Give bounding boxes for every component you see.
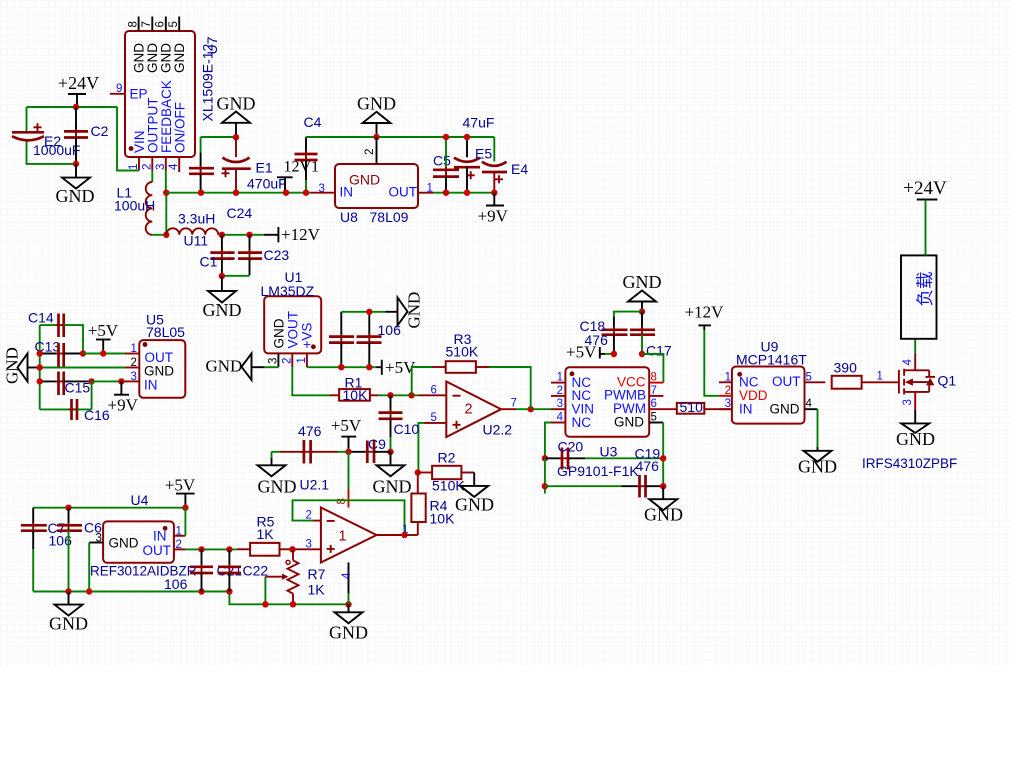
ground GND under C1/C23 <box>203 276 242 320</box>
resistor 510 <box>677 399 732 415</box>
capacitor E5 <box>454 115 494 193</box>
svg-text:2: 2 <box>465 402 473 418</box>
svg-text:+9V: +9V <box>478 207 509 226</box>
svg-text:R2: R2 <box>438 450 456 466</box>
svg-text:+12V: +12V <box>685 303 725 322</box>
svg-text:Q1: Q1 <box>938 373 957 389</box>
pin 4 (U2.1 V-) <box>341 563 353 605</box>
svg-text:3: 3 <box>131 371 137 383</box>
capacitor C20 <box>545 439 663 470</box>
ground GND under C2 <box>56 164 95 206</box>
capacitor C23 <box>222 235 289 276</box>
svg-text:GND: GND <box>56 186 95 206</box>
svg-text:U2.2: U2.2 <box>483 422 513 438</box>
svg-text:8: 8 <box>651 372 657 384</box>
wire pin3 feedback vertical <box>165 193 167 235</box>
svg-text:3: 3 <box>319 183 325 195</box>
wiper arrow <box>265 574 288 605</box>
svg-text:R7: R7 <box>308 566 326 582</box>
svg-text:IN: IN <box>144 378 158 393</box>
capacitor C21 <box>190 549 242 591</box>
svg-text:+VS: +VS <box>300 323 315 349</box>
svg-text:1: 1 <box>725 371 731 383</box>
op-amp U2.1 <box>300 477 377 563</box>
svg-text:C24: C24 <box>227 205 253 221</box>
svg-text:+12V: +12V <box>281 225 321 244</box>
wire GND top link <box>201 136 236 138</box>
svg-text:2: 2 <box>176 539 182 551</box>
svg-text:GND: GND <box>271 318 286 348</box>
svg-text:GND: GND <box>405 292 424 329</box>
ground GND under C9 <box>373 452 412 497</box>
svg-text:E1: E1 <box>256 160 273 176</box>
svg-text:5: 5 <box>651 412 657 424</box>
svg-text:E5: E5 <box>475 146 492 162</box>
svg-text:9: 9 <box>116 83 122 95</box>
wire bottom GND rail <box>33 591 229 593</box>
regulator U7 <box>125 31 195 157</box>
junction dot <box>219 232 225 238</box>
ground GND under U9 <box>798 409 837 476</box>
capacitor C24 <box>189 137 214 193</box>
junction dot <box>100 350 106 356</box>
svg-text:5: 5 <box>168 21 180 27</box>
svg-text:+24V: +24V <box>903 178 947 199</box>
pin 2 (U5 GND) <box>125 357 139 369</box>
svg-text:U4: U4 <box>131 492 149 508</box>
pin 6 (U3 PWM) <box>649 398 677 410</box>
wire caps top row <box>341 311 385 313</box>
inductor U11 3.3uH <box>166 211 218 249</box>
svg-text:OUT: OUT <box>389 185 418 200</box>
pin 1 (U9 NC) <box>719 371 732 383</box>
svg-text:8: 8 <box>128 21 140 27</box>
junction dot <box>37 378 43 384</box>
svg-text:IN: IN <box>153 529 167 544</box>
ground GND bottom-left <box>49 592 88 634</box>
wire out to R4 <box>405 534 418 536</box>
pin 2 (U4 OUT) <box>174 539 186 551</box>
wire pin3 down <box>88 543 90 592</box>
ground GND under Q1 <box>896 410 935 449</box>
wire pin1 up <box>184 508 186 536</box>
wire top +5V row <box>33 507 185 509</box>
svg-text:C1: C1 <box>200 254 218 270</box>
pin 8 <box>128 17 140 32</box>
net flag +5V (U2.1 supply) <box>331 416 362 452</box>
svg-text:C10: C10 <box>394 421 420 437</box>
ground GND left flag <box>3 347 40 384</box>
junction dot <box>443 134 449 140</box>
pin 1 <box>128 157 140 171</box>
svg-text:IRFS4310ZPBF: IRFS4310ZPBF <box>862 456 957 471</box>
wire left column down <box>544 458 546 493</box>
sensor U1 LM35DZ <box>261 269 322 353</box>
pin 1 (U4 IN) <box>174 526 186 538</box>
svg-text:U2.1: U2.1 <box>300 477 330 493</box>
wire right GND column <box>662 423 664 487</box>
svg-text:2: 2 <box>306 510 312 522</box>
svg-text:5: 5 <box>806 371 812 383</box>
svg-text:+5V: +5V <box>88 321 119 340</box>
junction dot <box>198 190 204 196</box>
regulator U8 78L09 <box>335 164 418 225</box>
net flag +24V <box>58 73 99 107</box>
capacitor C6 <box>57 508 102 592</box>
svg-text:GND: GND <box>623 272 662 292</box>
svg-text:3: 3 <box>725 398 731 410</box>
svg-text:3: 3 <box>557 398 563 410</box>
svg-text:3: 3 <box>902 399 914 405</box>
svg-text:1000uF: 1000uF <box>33 142 80 158</box>
capacitor C4 <box>295 114 322 193</box>
svg-text:3: 3 <box>96 533 102 545</box>
svg-text:U3: U3 <box>600 444 618 460</box>
svg-text:2: 2 <box>282 358 294 364</box>
pin 3 (U8 IN) <box>311 183 335 195</box>
svg-text:GND: GND <box>373 477 412 497</box>
capacitor C19 <box>545 446 663 498</box>
pin 2 (U8 GND) <box>364 137 377 164</box>
pin 2 (U9 VDD) <box>719 385 732 397</box>
junction dot <box>73 104 79 110</box>
svg-text:GND: GND <box>144 364 174 379</box>
svg-text:GND: GND <box>217 94 256 114</box>
capacitor 476 <box>272 423 349 464</box>
svg-text:C23: C23 <box>264 247 290 263</box>
junction dot <box>491 190 497 196</box>
svg-text:U8: U8 <box>340 209 358 225</box>
net flag +12V <box>264 225 321 244</box>
junction dot <box>163 232 169 238</box>
svg-text:GND: GND <box>349 172 380 188</box>
potentiometer R7 1K <box>286 549 326 604</box>
svg-text:GND: GND <box>896 429 935 449</box>
svg-text:78L05: 78L05 <box>146 324 185 340</box>
pin 5 (U2.2 +) <box>424 412 446 424</box>
junction dot <box>373 134 379 140</box>
svg-text:5: 5 <box>431 412 437 424</box>
capacitor C15 <box>40 372 92 396</box>
junction dot <box>345 449 351 455</box>
pin 3 (U4 GND) <box>89 533 103 545</box>
svg-text:476: 476 <box>636 458 660 474</box>
pin 4 (Q1 drain) <box>902 339 915 366</box>
junction dot <box>660 483 666 489</box>
svg-text:1: 1 <box>557 372 563 384</box>
junction dot <box>464 134 470 140</box>
wire 12V1 rail (IN side) <box>166 192 311 194</box>
svg-text:C9: C9 <box>368 436 386 452</box>
svg-text:+9V: +9V <box>108 396 139 415</box>
capacitor C16 <box>40 381 110 423</box>
svg-text:C14: C14 <box>28 310 54 326</box>
ground GND right of R2 <box>455 473 494 515</box>
capacitor 106 right <box>357 312 402 367</box>
junction dot <box>639 308 645 314</box>
wire OUT row <box>186 548 237 550</box>
wire +5V to VCC pin <box>642 354 663 383</box>
pin 2 <box>141 157 153 171</box>
svg-text:1K: 1K <box>257 526 275 542</box>
svg-text:NC: NC <box>572 415 592 430</box>
svg-text:2: 2 <box>557 385 563 397</box>
svg-text:GND: GND <box>329 623 368 643</box>
svg-text:OUT: OUT <box>143 543 172 558</box>
capacitor C7 <box>21 508 72 592</box>
wire bottom rail <box>229 592 348 605</box>
net flag +5V <box>88 321 119 354</box>
svg-text:1: 1 <box>427 183 433 195</box>
svg-text:6: 6 <box>651 398 657 410</box>
net flag +9V <box>108 381 139 414</box>
svg-text:100uH: 100uH <box>114 198 155 214</box>
svg-text:2: 2 <box>131 357 137 369</box>
ground GND flag right (rotated) <box>385 292 423 329</box>
svg-text:2: 2 <box>725 385 731 397</box>
svg-text:7: 7 <box>141 21 153 27</box>
wire +5V down to pin8 <box>348 452 350 489</box>
svg-text:8: 8 <box>336 498 348 504</box>
wire pin5 down <box>418 423 424 473</box>
pin 5 <box>168 17 180 32</box>
capacitor C2 <box>64 107 109 164</box>
wire output to U3 <box>516 408 551 410</box>
junction dot <box>37 364 43 370</box>
capacitor C18 <box>580 312 643 354</box>
pin 4 (U9 GND) <box>805 398 818 410</box>
pin 7 <box>141 17 153 32</box>
net flag 12V1 <box>277 159 319 193</box>
capacitor C1 <box>200 235 235 277</box>
capacitor C9 <box>351 436 391 463</box>
junction dot <box>233 134 239 140</box>
junction dot <box>37 350 43 356</box>
svg-text:GP9101-F1K: GP9101-F1K <box>557 463 639 479</box>
svg-text:负载: 负载 <box>915 272 935 307</box>
svg-text:VOUT: VOUT <box>286 311 301 349</box>
svg-text:+5V: +5V <box>331 416 362 435</box>
pin 8 (U2.1 V+) <box>336 489 349 508</box>
svg-text:ON/OFF: ON/OFF <box>173 102 188 153</box>
svg-text:U11: U11 <box>184 233 209 249</box>
resistor R5 1K <box>237 514 293 556</box>
junction dot <box>303 190 309 196</box>
pin 8 (U3 VCC) <box>649 372 663 384</box>
wire pin1 to +24V rail <box>117 107 139 171</box>
svg-text:4: 4 <box>557 412 564 424</box>
capacitor E4 <box>482 137 528 193</box>
svg-text:106: 106 <box>164 576 188 592</box>
svg-text:C17: C17 <box>646 343 672 359</box>
junction dot <box>283 190 289 196</box>
junction dot <box>233 190 239 196</box>
svg-text:2: 2 <box>364 149 376 155</box>
svg-text:1: 1 <box>877 371 883 383</box>
svg-text:2: 2 <box>141 164 153 170</box>
resistor R4 10K <box>411 473 455 536</box>
capacitor C14 <box>28 310 83 354</box>
svg-text:78L09: 78L09 <box>370 209 409 225</box>
svg-text:GND: GND <box>203 300 242 320</box>
pin 1 (U2.1 out) <box>377 524 409 536</box>
pin 2 (U1 VOUT) <box>282 353 294 367</box>
pin 5 (U9 OUT) <box>805 371 826 383</box>
ground GND under 476 <box>258 452 297 497</box>
wire GND row <box>40 367 125 369</box>
pin 2 (U3) <box>551 385 565 397</box>
junction dot <box>73 161 79 167</box>
pin 3 <box>155 157 167 171</box>
net flag +5V (U3) <box>566 343 614 362</box>
capacitor C22 <box>218 549 268 591</box>
wire +9V row <box>92 380 125 382</box>
svg-text:+5V: +5V <box>165 476 196 495</box>
wire U11 to +12V <box>218 234 264 236</box>
junction dot <box>542 455 548 461</box>
svg-text:U7: U7 <box>204 36 220 54</box>
svg-text:GND: GND <box>644 505 683 525</box>
pin 1 (U3) <box>551 372 565 384</box>
wire R1 to U2.2 pin6 <box>378 394 419 396</box>
svg-text:C22: C22 <box>243 563 269 579</box>
pin 1 (U5 OUT) <box>125 343 139 355</box>
svg-text:GND: GND <box>206 357 243 376</box>
wire +24V rail <box>27 106 118 108</box>
svg-text:C20: C20 <box>558 439 584 455</box>
svg-text:4: 4 <box>168 163 180 170</box>
svg-text:GND: GND <box>798 457 837 477</box>
resistor R3 510K <box>412 331 531 409</box>
junction dot <box>387 449 393 455</box>
svg-text:GND: GND <box>614 414 644 429</box>
capacitor C10 <box>379 395 420 452</box>
wire left vertical <box>39 325 41 409</box>
pin 5 (U3 GND) <box>649 412 663 424</box>
svg-text:4: 4 <box>806 398 813 410</box>
junction dot <box>415 469 421 475</box>
svg-text:4: 4 <box>341 572 353 579</box>
svg-text:1: 1 <box>339 529 347 545</box>
pin 3 (U3 VIN) <box>551 398 565 410</box>
svg-text:1: 1 <box>131 343 137 355</box>
svg-text:GND: GND <box>770 402 800 417</box>
svg-text:3: 3 <box>267 358 279 364</box>
pin 1 (U1 +VS) <box>296 353 308 367</box>
junction dot <box>163 190 169 196</box>
svg-text:3: 3 <box>155 164 167 170</box>
pin 3 (U2.1 +) <box>293 539 321 551</box>
regulator U5 78L05 <box>139 312 185 398</box>
junction dot <box>611 351 617 357</box>
pin 9 EP <box>110 83 148 102</box>
capacitor C13 <box>35 339 84 367</box>
svg-text:+24V: +24V <box>58 73 99 93</box>
ground GND above U8 <box>357 94 396 138</box>
svg-text:1: 1 <box>176 526 182 538</box>
junction dot <box>219 273 225 279</box>
junction dot <box>289 546 295 552</box>
net flag +12V (U9) <box>685 303 725 396</box>
svg-text:C2: C2 <box>91 123 109 139</box>
capacitor E2 <box>12 107 80 164</box>
svg-text:MCP1416T: MCP1416T <box>736 352 807 368</box>
net flag +24V (load) <box>903 178 947 255</box>
svg-text:GND: GND <box>172 43 187 73</box>
load box (负载) <box>901 255 937 338</box>
svg-text:+5V: +5V <box>566 343 597 362</box>
junction dot <box>118 378 124 384</box>
svg-text:3.3uH: 3.3uH <box>178 211 215 227</box>
pin 3 (U9 IN) <box>719 398 732 410</box>
driver U3 GP9101-F1K <box>557 367 649 479</box>
junction dots caps <box>338 364 344 370</box>
inductor L1 <box>114 182 155 235</box>
capacitor C17 <box>630 312 672 359</box>
junction dot <box>246 232 252 238</box>
resistor R1 10K <box>330 375 378 404</box>
pin 4 (U3) <box>551 412 565 424</box>
svg-text:OUT: OUT <box>772 374 801 389</box>
pin1 indicator dot <box>129 146 134 151</box>
capacitor 106 left <box>329 312 354 367</box>
reference U4 REF3012AIDBZR <box>90 492 197 592</box>
capacitor E1 <box>222 137 287 193</box>
pin 1 (U8 OUT) <box>418 183 433 195</box>
wire pin2 to L1 <box>151 171 153 183</box>
pin 7 (U2.2 out) <box>501 398 517 410</box>
svg-text:6: 6 <box>155 21 167 27</box>
pin 6 <box>155 17 167 32</box>
ground GND flag left of U1 <box>206 354 279 381</box>
svg-text:510K: 510K <box>446 344 479 360</box>
svg-text:390: 390 <box>834 360 858 376</box>
pin 2 (U2.1 -) <box>306 510 321 522</box>
resistor 390 <box>832 360 899 389</box>
capacitor C5 <box>433 137 459 193</box>
svg-text:LM35DZ: LM35DZ <box>261 283 315 299</box>
feedback loop wire <box>293 500 405 535</box>
pin 6 (U2.2 -) <box>419 385 447 397</box>
ground GND under C19 <box>644 486 683 524</box>
svg-text:E4: E4 <box>511 161 528 177</box>
wire L1 to junction <box>152 234 166 236</box>
svg-text:IN: IN <box>739 402 753 417</box>
svg-text:47uF: 47uF <box>463 115 495 131</box>
svg-text:3: 3 <box>306 539 312 551</box>
svg-text:476: 476 <box>298 423 322 439</box>
wire GND rail top <box>306 136 494 138</box>
svg-text:7: 7 <box>511 398 517 410</box>
svg-text:GND: GND <box>455 495 494 515</box>
svg-text:510: 510 <box>680 399 704 415</box>
resistor R2 510K <box>418 450 474 494</box>
svg-text:1: 1 <box>128 164 140 170</box>
wire +5V row (U1) <box>307 366 376 368</box>
svg-text:C5: C5 <box>433 153 451 169</box>
svg-text:10K: 10K <box>430 511 456 527</box>
transistor Q1 IRFS4310ZPBF <box>899 353 956 409</box>
pin 7 (U3 PWMB) <box>649 385 663 397</box>
svg-text:1K: 1K <box>308 582 326 598</box>
svg-text:GND: GND <box>49 614 88 634</box>
pin 4 <box>168 157 180 172</box>
wire VOUT to R1 <box>292 367 330 395</box>
driver U9 MCP1416T <box>732 339 807 424</box>
svg-text:GND: GND <box>357 94 396 114</box>
svg-text:GND: GND <box>109 536 139 551</box>
pin 3 (U1 GND) <box>267 353 279 367</box>
